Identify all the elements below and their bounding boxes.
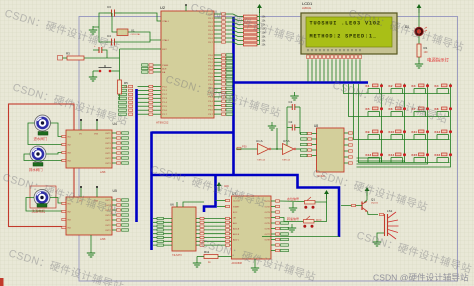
- transistor Q1: [362, 198, 379, 212]
- wire keypad row 4 from bus: [359, 84, 450, 163]
- svg-text:K12: K12: [435, 130, 441, 134]
- pin VS of U5 with open dot: [80, 188, 82, 197]
- svg-text:ALE: ALE: [233, 222, 237, 225]
- svg-text:ADC0808: ADC0808: [232, 262, 243, 265]
- svg-text:OUT3: OUT3: [105, 163, 111, 165]
- pin output 7 of U4: [112, 162, 129, 164]
- resistor R13 (P0 pull-up): [244, 43, 267, 47]
- push button K15: [412, 153, 430, 163]
- pin P3.4 of U2 with net label: [208, 100, 232, 103]
- svg-text:U8: U8: [314, 124, 318, 128]
- svg-text:电源指示灯: 电源指示灯: [427, 57, 450, 64]
- pin name labels inside U4: [68, 133, 112, 165]
- push button K16: [435, 153, 453, 163]
- svg-text:R5: R5: [124, 81, 128, 85]
- pin right 9 of U7: [271, 244, 289, 246]
- svg-text:OUT2: OUT2: [105, 225, 111, 227]
- resistor R7 (P0 pull-up): [244, 19, 267, 23]
- svg-text:XTAL1: XTAL1: [162, 20, 169, 23]
- push button K3: [412, 84, 430, 94]
- net label box drain valve: [33, 163, 43, 167]
- pin VSS of U4 with open dot: [96, 121, 98, 130]
- pin P1.7 of U2 to P1 bus: [119, 113, 168, 116]
- svg-text:P0.4: P0.4: [208, 30, 213, 32]
- pin Q0 of U6: [196, 217, 232, 219]
- wire keypad column 4 to decoder: [357, 163, 451, 168]
- resistor R5: [118, 80, 129, 100]
- LED D1 power indicator: [405, 25, 427, 36]
- pin OE of U6: [183, 202, 204, 207]
- ground near inverters: [268, 122, 276, 130]
- bus H1 horizontal: [152, 131, 235, 134]
- pin right 3 of U7: [271, 211, 280, 213]
- bus stub to U7 clock area: [204, 175, 216, 212]
- inverter U7:A: [282, 139, 296, 162]
- svg-text:K14: K14: [389, 153, 395, 157]
- wire keypad row 3 from bus: [354, 84, 450, 140]
- svg-text:OUT4: OUT4: [105, 148, 111, 150]
- crystal X1: [112, 13, 161, 40]
- pin Q5 of U6: [196, 236, 232, 238]
- pin output 5 of U4: [112, 152, 129, 154]
- svg-text:P3.6: P3.6: [208, 110, 213, 112]
- pin input 2 of U4: [62, 143, 66, 145]
- push button K5: [366, 107, 384, 117]
- pin right 1 of U7: [271, 200, 280, 202]
- svg-text:METHOD:2 SPEED:1_: METHOD:2 SPEED:1_: [310, 34, 377, 40]
- pin Q3 of U6: [196, 229, 232, 231]
- pin P2.2 of U2 with net label: [208, 61, 232, 64]
- ground for LS1: [373, 238, 381, 246]
- svg-text:K10: K10: [389, 130, 395, 134]
- wire keypad column 4: [450, 84, 452, 163]
- pin P1.0 of U2 to P1 bus: [119, 85, 168, 88]
- pin input 3 of U4: [62, 151, 66, 153]
- resistor R10 (P0 pull-up): [244, 31, 267, 35]
- pin P2.4 of U2 with net label: [208, 68, 232, 71]
- pin P0.2 of U2 with number box: [208, 21, 243, 25]
- pin output 4 of U5: [112, 214, 129, 216]
- pin output 2 of U5: [112, 204, 129, 206]
- pin D2 of U6: [153, 225, 172, 227]
- pin P1.4 of U2 to P1 bus: [119, 101, 168, 104]
- wire bus end to transistor base: [262, 236, 339, 238]
- pin output 2 of U4: [112, 137, 129, 139]
- pin P0.4 of U2 with number box: [208, 29, 243, 33]
- wire C1 C2 left rail: [286, 107, 288, 149]
- pin input 4 of U4: [62, 159, 66, 161]
- bus H2 horizontal (ADC bus): [152, 175, 340, 237]
- pin D6 of U6: [153, 240, 172, 242]
- svg-text:LM044L: LM044L: [302, 6, 312, 10]
- pin P0.7 of U2 with number box: [208, 41, 243, 45]
- svg-text:100: 100: [424, 51, 429, 54]
- pin output 4 of U4: [112, 147, 129, 149]
- pin name labels inside U7 right: [264, 201, 270, 242]
- pin VS of U4 with open dot: [80, 121, 82, 130]
- pin 12 of LCD1: [351, 49, 354, 82]
- svg-text:U2: U2: [160, 5, 166, 10]
- wire keypad row 2 from bus: [349, 84, 450, 117]
- wire XTAL1 net: [122, 13, 161, 21]
- pin Q2 of U6: [196, 225, 232, 227]
- svg-text:P2.2: P2.2: [208, 62, 213, 64]
- svg-text:K11: K11: [412, 130, 418, 134]
- wire emitter of Q1 to sounder: [368, 212, 379, 215]
- svg-text:P1.4: P1.4: [162, 102, 167, 104]
- push button K6: [389, 107, 407, 117]
- motor inlet valve: [35, 115, 51, 131]
- pin 14 of LCD1: [359, 49, 362, 82]
- pin name labels inside U5: [68, 200, 112, 232]
- power +5V arrow for pull-ups: [257, 4, 262, 13]
- svg-text:K9: K9: [366, 130, 370, 134]
- svg-text:C2: C2: [289, 120, 293, 124]
- pin right 1 of U8: [344, 132, 353, 134]
- push button K1: [366, 84, 384, 94]
- svg-text:K16: K16: [435, 153, 441, 157]
- IC U4 L298 body: [66, 130, 112, 168]
- pin left 4 of U8: [301, 149, 317, 151]
- capacitor C5 electrolytic: [93, 45, 107, 58]
- svg-text:OUT1: OUT1: [105, 153, 111, 155]
- pin input 1 of U4: [62, 135, 66, 137]
- pin output 3 of U5: [112, 209, 129, 211]
- pin Q1 of U6: [196, 221, 232, 223]
- svg-text:K4: K4: [435, 84, 439, 88]
- svg-text:ALE: ALE: [162, 67, 167, 70]
- pin D5 of U6: [153, 236, 172, 238]
- wire U7 IN1 to RV3: [280, 218, 304, 222]
- svg-text:OUT1: OUT1: [105, 133, 111, 135]
- svg-text:P3.5: P3.5: [208, 105, 213, 107]
- pin CLOCK of U7: [216, 200, 226, 202]
- wire D1 to R1: [418, 36, 420, 44]
- svg-text:C1: C1: [289, 100, 293, 104]
- svg-text:P1.3: P1.3: [162, 98, 167, 100]
- pin 7 of LCD1: [331, 49, 334, 82]
- potentiometer RV2: [304, 197, 315, 209]
- svg-text:K3: K3: [412, 84, 416, 88]
- wire VCC stub on MCU top: [185, 6, 187, 12]
- motor drain valve: [30, 146, 46, 162]
- svg-text:U1:A: U1:A: [256, 139, 263, 143]
- svg-text:P1.1: P1.1: [162, 90, 167, 92]
- pin P3.7 of U2 with net label: [208, 113, 232, 116]
- wire keypad column 1: [381, 84, 383, 163]
- IC U7 ADC0808 body: [232, 196, 272, 259]
- push button K4: [435, 84, 453, 94]
- capacitor C3: [104, 5, 122, 17]
- pin P1.6 of U2 to P1 bus: [119, 109, 168, 112]
- capacitor C1: [287, 100, 300, 110]
- wire keypad column 3 to decoder: [357, 163, 428, 165]
- pin P0.3 of U2 with number box: [208, 25, 243, 29]
- svg-text:P0.2: P0.2: [208, 22, 213, 24]
- wire RST net: [120, 48, 162, 50]
- svg-text:P2.5: P2.5: [208, 73, 213, 75]
- resistor R11: [197, 250, 232, 264]
- pin 13 of LCD1: [355, 49, 358, 82]
- svg-text:P2.1: P2.1: [208, 58, 213, 60]
- wire keypad column 1 to decoder: [357, 158, 382, 163]
- power arrow for Q1 collector: [365, 187, 370, 196]
- svg-text:P30: P30: [242, 145, 247, 149]
- bus V2 vertical (latch bus): [150, 132, 153, 251]
- svg-text:OUT2: OUT2: [105, 158, 111, 160]
- bus B-left vertical (P1 bus): [135, 89, 138, 222]
- inverter U1:A: [256, 139, 271, 162]
- svg-text:ADD C: ADD C: [233, 239, 240, 242]
- svg-text:OUT2: OUT2: [105, 138, 111, 140]
- ground below U7: [251, 264, 259, 272]
- svg-text:2N2222: 2N2222: [371, 203, 379, 205]
- wire collector of Q1: [364, 196, 367, 203]
- svg-text:K15: K15: [412, 153, 418, 157]
- svg-text:K13: K13: [366, 153, 372, 157]
- pin P3.0 of U2 with net label: [208, 83, 232, 86]
- pin output 7 of U5: [112, 229, 129, 231]
- svg-text:74HC14: 74HC14: [282, 160, 291, 162]
- wire C1 C2 right rail: [300, 107, 301, 134]
- capacitor C4: [104, 34, 150, 46]
- svg-text:P0.3: P0.3: [208, 26, 213, 28]
- pin 11 of LCD1: [347, 49, 350, 82]
- pin right 3 of U8: [344, 144, 353, 146]
- pin Q6 of U6: [196, 240, 232, 242]
- pin Q4 of U6: [196, 233, 232, 235]
- wire U5 to ground: [90, 235, 92, 249]
- svg-text:P1.5: P1.5: [162, 106, 167, 108]
- pin output 6 of U5: [112, 224, 129, 226]
- wire RV3 to power rail: [314, 202, 327, 222]
- svg-text:L298: L298: [100, 171, 106, 174]
- svg-text:XTAL2: XTAL2: [162, 39, 169, 42]
- pin P1.5 of U2 to P1 bus: [119, 105, 168, 108]
- ground for crystal caps: [89, 26, 97, 34]
- pin P3.1 of U2 with net label: [208, 87, 232, 90]
- push button K9: [366, 130, 384, 140]
- wire washing motor to U5: [50, 198, 66, 204]
- svg-text:START: START: [233, 206, 240, 209]
- node junction inverter output: [276, 128, 278, 149]
- svg-text:OUT3: OUT3: [264, 212, 270, 214]
- svg-text:P2.3: P2.3: [208, 66, 213, 68]
- ground for RV3: [288, 224, 296, 232]
- pin P0.0 of U2 with number box: [208, 13, 243, 17]
- svg-text:RST: RST: [162, 49, 167, 51]
- pin P2.6 of U2 with net label: [208, 75, 232, 78]
- pin left 1 of U8: [301, 132, 317, 134]
- resistor R3: [58, 52, 120, 61]
- svg-text:L298: L298: [100, 238, 106, 241]
- svg-text:C3: C3: [107, 5, 111, 9]
- pin output 1 of U4: [112, 132, 129, 134]
- push button K2: [389, 84, 407, 94]
- svg-text:74HC14: 74HC14: [257, 160, 266, 162]
- svg-text:CSDN @硬件设计辅导站: CSDN @硬件设计辅导站: [373, 272, 469, 283]
- svg-text:P1.6: P1.6: [162, 110, 167, 112]
- IC U8 74C922 body: [317, 128, 345, 172]
- wire pull-up common rail: [259, 12, 261, 45]
- svg-text:排水阀门: 排水阀门: [29, 167, 43, 172]
- svg-text:PSEN: PSEN: [162, 65, 168, 67]
- svg-text:P0.5: P0.5: [208, 34, 213, 36]
- svg-text:ADD A: ADD A: [233, 228, 240, 231]
- wire power to D1: [418, 13, 420, 27]
- svg-text:P2.4: P2.4: [208, 69, 213, 71]
- pin D7 of U6: [153, 244, 172, 246]
- microcontroller U2 AT89C52 body: [161, 11, 214, 118]
- svg-text:OUT3: OUT3: [105, 143, 111, 145]
- pin output 6 of U4: [112, 157, 129, 159]
- bus B1 vertical (MCU P0/P2/P3 bus): [232, 17, 235, 175]
- svg-text:P1.0: P1.0: [162, 86, 167, 88]
- wire R1 to ground: [418, 57, 420, 62]
- push button K12: [435, 130, 453, 140]
- pin right 2 of U7: [271, 205, 280, 207]
- pin right 4 of U7: [271, 216, 280, 218]
- svg-text:U6: U6: [170, 203, 174, 207]
- svg-text:OUT3: OUT3: [105, 230, 111, 232]
- net label box washing motor: [37, 204, 47, 208]
- net label box inlet valve: [38, 132, 48, 136]
- pin P3.5 of U2 with net label: [208, 104, 232, 107]
- pin input 2 of U5: [62, 210, 66, 212]
- net label P3.0 into inverter: [236, 145, 258, 150]
- pin P2.5 of U2 with net label: [208, 72, 232, 75]
- pin output 5 of U5: [112, 219, 129, 221]
- pin 10 of LCD1: [343, 49, 346, 82]
- pin 4 of LCD1: [319, 49, 322, 82]
- pin P3.6 of U2 with net label: [208, 109, 232, 112]
- wire keypad column 2 to decoder: [357, 161, 405, 163]
- pin START of U7: [217, 206, 226, 208]
- wire inlet valve to U4: [51, 123, 67, 137]
- wire drain valve to U4: [46, 153, 66, 155]
- pin D1 of U6: [153, 221, 172, 223]
- pin right 10 of U7: [271, 249, 289, 251]
- ground for LED D1: [415, 60, 423, 68]
- pin D3 of U6: [153, 229, 172, 231]
- wire keypad row 1 from bus: [344, 84, 450, 94]
- svg-text:P3.7: P3.7: [208, 114, 213, 116]
- push button K7: [412, 107, 430, 117]
- wire U7 IN0 to RV2: [280, 200, 305, 203]
- pin right 5 of U7: [271, 222, 289, 224]
- svg-text:OUT7: OUT7: [264, 234, 270, 236]
- wire keypad column 2: [404, 84, 406, 163]
- pin P1.1 of U2 to P1 bus: [119, 89, 168, 92]
- pin name labels inside U7: [233, 201, 241, 242]
- svg-text:转速信号: 转速信号: [287, 216, 299, 221]
- ground below U5: [87, 249, 95, 257]
- wire keypad column 3: [427, 84, 429, 163]
- svg-text:OUT5: OUT5: [264, 223, 270, 225]
- svg-text:OUT2: OUT2: [264, 206, 270, 208]
- svg-text:OUT8: OUT8: [264, 239, 270, 241]
- svg-text:OUT1: OUT1: [105, 220, 111, 222]
- pin P1.2 of U2 to P1 bus: [119, 93, 168, 96]
- svg-text:K2: K2: [389, 84, 393, 88]
- pin left 5 of U8: [301, 154, 317, 156]
- wire U1:A to U7:A: [271, 148, 283, 150]
- pin LE of U6: [176, 202, 178, 207]
- pin 9 of LCD1: [339, 49, 342, 82]
- pin right 7 of U7: [271, 233, 289, 235]
- pin Q7 of U6: [196, 244, 232, 246]
- pin P0.5 of U2 with number box: [208, 33, 243, 37]
- svg-text:P0.7: P0.7: [208, 42, 213, 44]
- wire R11 to ground: [196, 257, 198, 260]
- pin 3 of LCD1: [315, 49, 318, 82]
- svg-text:U7:A: U7:A: [283, 139, 290, 143]
- inner box washing motor: [30, 186, 56, 208]
- svg-text:P2.6: P2.6: [208, 76, 213, 78]
- LCD LCD1 body: [301, 13, 397, 54]
- push button K13: [366, 153, 384, 163]
- svg-text:U5: U5: [113, 189, 117, 193]
- svg-text:LS1: LS1: [387, 209, 393, 213]
- pin P2.3 of U2 with net label: [208, 65, 232, 68]
- pin right 2 of U8: [344, 138, 353, 140]
- resistor R11 (P0 pull-up): [244, 35, 267, 39]
- pin right 6 of U7: [271, 227, 289, 229]
- svg-text:K1: K1: [366, 84, 370, 88]
- pin output 1 of U5: [112, 199, 129, 201]
- pin D4 of U6: [153, 233, 172, 235]
- resistor R9 (P0 pull-up): [244, 27, 267, 31]
- IC U5 L298 body: [66, 197, 112, 235]
- wire caps to ground: [99, 13, 104, 42]
- pin 2 of LCD1: [311, 49, 314, 82]
- svg-text:水位信号: 水位信号: [287, 196, 299, 201]
- pin right 5 of U8: [344, 156, 353, 158]
- power arrow below U8: [324, 190, 329, 199]
- pin D0 of U6: [153, 217, 172, 219]
- pin P2.0 of U2 with net label: [208, 54, 232, 57]
- svg-text:AT89C52: AT89C52: [156, 121, 169, 125]
- svg-text:K5: K5: [366, 107, 370, 111]
- pin P0.1 of U2 with number box: [208, 17, 243, 21]
- power arrow ADC reference: [217, 182, 222, 191]
- push button RESET: [93, 65, 120, 72]
- svg-text:OUT4: OUT4: [264, 217, 270, 219]
- pin output 3 of U4: [112, 142, 129, 144]
- pin P3.3 of U2 with net label: [208, 96, 232, 99]
- wire base of Q1 with label: [341, 205, 362, 207]
- pin input 1 of U5: [62, 202, 66, 204]
- push button K8: [435, 107, 453, 117]
- pin P3.2 of U2 with net label: [208, 91, 232, 94]
- svg-text:LCD1: LCD1: [302, 1, 313, 6]
- pin EA of U2 with net label: [142, 71, 166, 74]
- svg-text:P3.4: P3.4: [208, 101, 213, 103]
- resistor R6 (P0 pull-up): [244, 15, 267, 19]
- push button K14: [389, 153, 407, 163]
- capacitor C2: [287, 120, 300, 131]
- pin 1 of LCD1: [307, 49, 310, 82]
- pin left 2 of U8: [301, 138, 317, 140]
- svg-text:P2.0: P2.0: [208, 55, 213, 57]
- svg-text:P1.2: P1.2: [162, 94, 167, 96]
- svg-text:进水阀门: 进水阀门: [34, 136, 48, 141]
- svg-text:P2.7: P2.7: [208, 80, 213, 82]
- pin input 3 of U5: [62, 218, 66, 220]
- pin VSS of U5 with open dot: [96, 188, 98, 197]
- svg-text:R3: R3: [66, 52, 70, 56]
- wire U7 bottom to ground: [254, 259, 256, 264]
